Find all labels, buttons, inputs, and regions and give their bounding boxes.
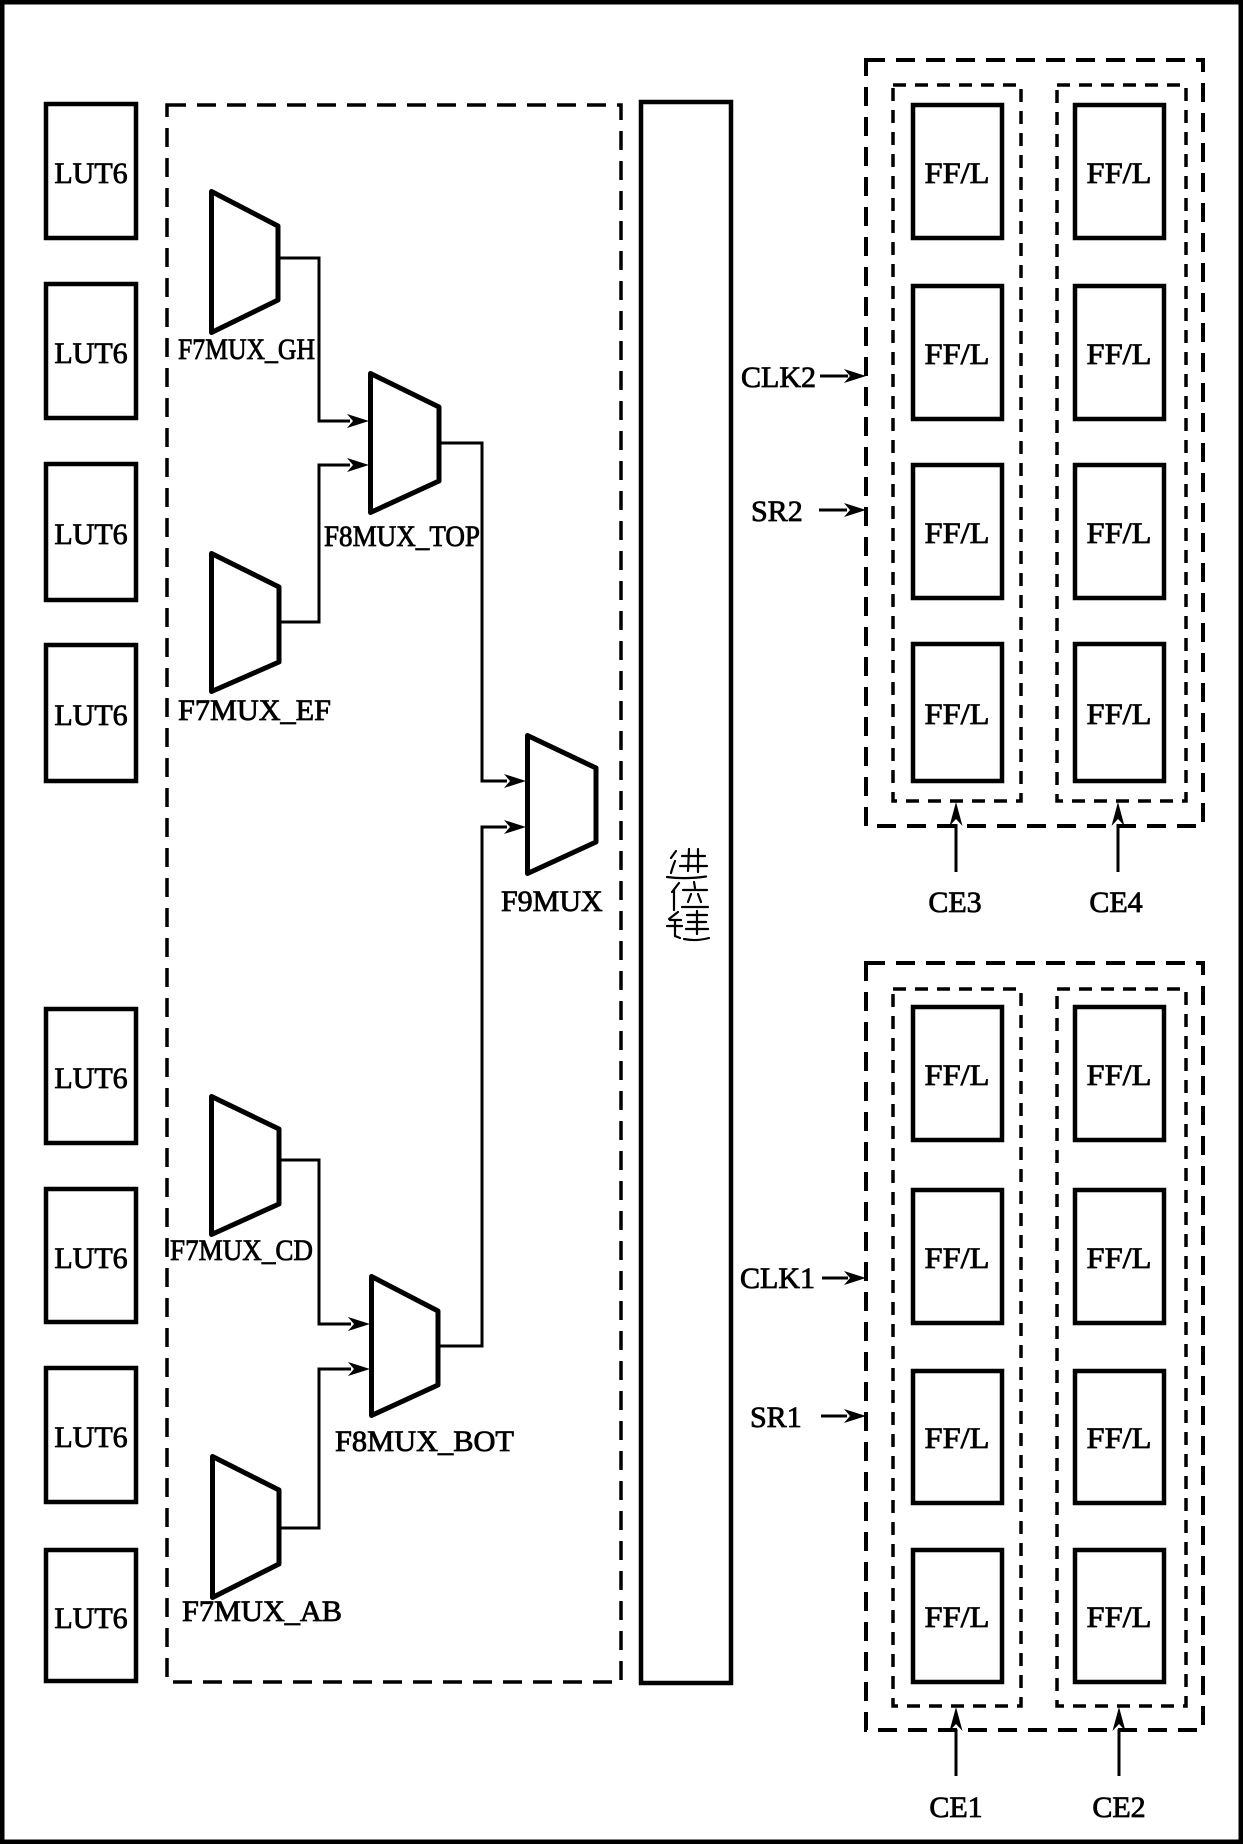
LUT6 box 1 [46, 104, 136, 238]
svg-text:FF/L: FF/L [1087, 698, 1152, 731]
svg-text:SR1: SR1 [750, 1401, 802, 1434]
svg-text:F7MUX_EF: F7MUX_EF [178, 694, 331, 727]
wire F7MUX_EF out [279, 465, 350, 622]
svg-text:F9MUX: F9MUX [501, 885, 603, 918]
FF/L box top group col1 row4 [913, 644, 1002, 781]
carry chain label (Chinese vertical: 进位链) [667, 849, 709, 940]
CE2 arrow [1092, 1707, 1145, 1824]
LUT6 box 2 [46, 284, 136, 418]
inner dashed rect CE1 column [893, 989, 1021, 1706]
svg-text:CLK1: CLK1 [740, 1262, 815, 1295]
carry chain box [641, 102, 731, 1683]
svg-text:LUT6: LUT6 [54, 157, 127, 190]
CLK1 label [740, 1262, 866, 1295]
LUT6 box 5 [46, 1009, 136, 1143]
FF/L box bottom group col1 row3 [913, 1371, 1002, 1503]
svg-text:CE4: CE4 [1089, 886, 1142, 919]
CE1 arrow [929, 1707, 982, 1824]
arrow into F9MUX in0 [504, 774, 526, 788]
mux F9MUX [501, 736, 603, 919]
mux F7MUX_AB [182, 1457, 342, 1629]
FF/L box top group col2 row4 [1075, 644, 1164, 781]
svg-text:FF/L: FF/L [1087, 1422, 1152, 1455]
arrow into F8MUX_BOT in1 [348, 1362, 370, 1376]
FF/L box top group col2 row3 [1075, 465, 1164, 598]
svg-text:LUT6: LUT6 [54, 1602, 127, 1635]
svg-text:FF/L: FF/L [925, 1422, 990, 1455]
wire F7MUX_GH out [278, 258, 350, 421]
svg-text:FF/L: FF/L [925, 1601, 990, 1634]
svg-text:FF/L: FF/L [925, 1059, 990, 1092]
LUT6 box 7 [46, 1368, 136, 1502]
svg-text:LUT6: LUT6 [54, 337, 127, 370]
CE3 arrow [928, 802, 981, 919]
FF/L box top group col2 row2 [1075, 286, 1164, 419]
svg-text:CE2: CE2 [1092, 1791, 1145, 1824]
svg-text:LUT6: LUT6 [54, 518, 127, 551]
svg-text:FF/L: FF/L [1087, 1242, 1152, 1275]
svg-text:F7MUX_CD: F7MUX_CD [170, 1234, 313, 1267]
FF/L box top group col1 row1 [913, 105, 1002, 238]
inner dashed rect CE4 column [1057, 85, 1186, 801]
inner dashed rect CE2 column [1057, 989, 1186, 1706]
svg-text:FF/L: FF/L [1087, 338, 1152, 371]
arrow into F9MUX in1 [504, 820, 526, 834]
FF/L box top group col1 row2 [913, 286, 1002, 419]
svg-text:SR2: SR2 [751, 495, 803, 528]
mux F8MUX_TOP [324, 374, 480, 554]
svg-text:FF/L: FF/L [1087, 1059, 1152, 1092]
CLK2 label [741, 361, 866, 394]
LUT6 box 4 [46, 645, 136, 781]
wire F8MUX_TOP out [439, 443, 507, 781]
svg-text:CE3: CE3 [928, 886, 981, 919]
svg-text:FF/L: FF/L [925, 338, 990, 371]
svg-text:FF/L: FF/L [925, 157, 990, 190]
FF/L box bottom group col1 row2 [913, 1190, 1002, 1323]
svg-text:FF/L: FF/L [925, 517, 990, 550]
FF/L box bottom group col2 row1 [1075, 1007, 1164, 1140]
FF/L box top group col2 row1 [1075, 105, 1164, 238]
svg-text:LUT6: LUT6 [54, 1421, 127, 1454]
mux F7MUX_CD [170, 1097, 313, 1268]
svg-text:F8MUX_TOP: F8MUX_TOP [324, 520, 480, 553]
svg-text:F7MUX_GH: F7MUX_GH [178, 333, 315, 366]
SR1 label [750, 1401, 866, 1434]
mux F7MUX_GH [178, 192, 315, 367]
LUT6 box 8 [46, 1550, 136, 1681]
mux-group dashed rectangle [167, 105, 621, 1682]
svg-text:FF/L: FF/L [1087, 1601, 1152, 1634]
svg-text:FF/L: FF/L [1087, 517, 1152, 550]
arrow into F8MUX_TOP in1 [347, 458, 369, 472]
LUT6 box 3 [46, 464, 136, 600]
top FF group outer dashed rect [866, 60, 1203, 826]
FF/L box bottom group col2 row2 [1075, 1190, 1164, 1323]
mux F8MUX_BOT [335, 1277, 514, 1459]
svg-text:CE1: CE1 [929, 1791, 982, 1824]
CE4 arrow [1089, 802, 1142, 919]
LUT6 box 6 [46, 1189, 136, 1322]
svg-text:LUT6: LUT6 [54, 699, 127, 732]
svg-text:FF/L: FF/L [1087, 157, 1152, 190]
arrow into F8MUX_TOP in0 [347, 414, 369, 428]
wire F7MUX_AB out [279, 1369, 351, 1528]
svg-text:LUT6: LUT6 [54, 1062, 127, 1095]
FF/L box bottom group col1 row4 [913, 1550, 1002, 1682]
FF/L box top group col1 row3 [913, 465, 1002, 598]
FF/L box bottom group col2 row4 [1075, 1550, 1164, 1682]
svg-text:F7MUX_AB: F7MUX_AB [182, 1595, 342, 1628]
svg-text:FF/L: FF/L [925, 698, 990, 731]
wire F7MUX_CD out [279, 1160, 351, 1324]
svg-text:LUT6: LUT6 [54, 1242, 127, 1275]
svg-text:CLK2: CLK2 [741, 361, 816, 394]
svg-text:F8MUX_BOT: F8MUX_BOT [335, 1425, 514, 1458]
mux F7MUX_EF [178, 554, 331, 728]
svg-text:FF/L: FF/L [925, 1242, 990, 1275]
SR2 label [751, 495, 866, 528]
FF/L box bottom group col1 row1 [913, 1007, 1002, 1140]
bottom FF group outer dashed rect [866, 963, 1203, 1730]
FF/L box bottom group col2 row3 [1075, 1371, 1164, 1503]
inner dashed rect CE3 column [893, 85, 1021, 801]
arrow into F8MUX_BOT in0 [348, 1317, 370, 1331]
wire F8MUX_BOT out [438, 827, 507, 1346]
